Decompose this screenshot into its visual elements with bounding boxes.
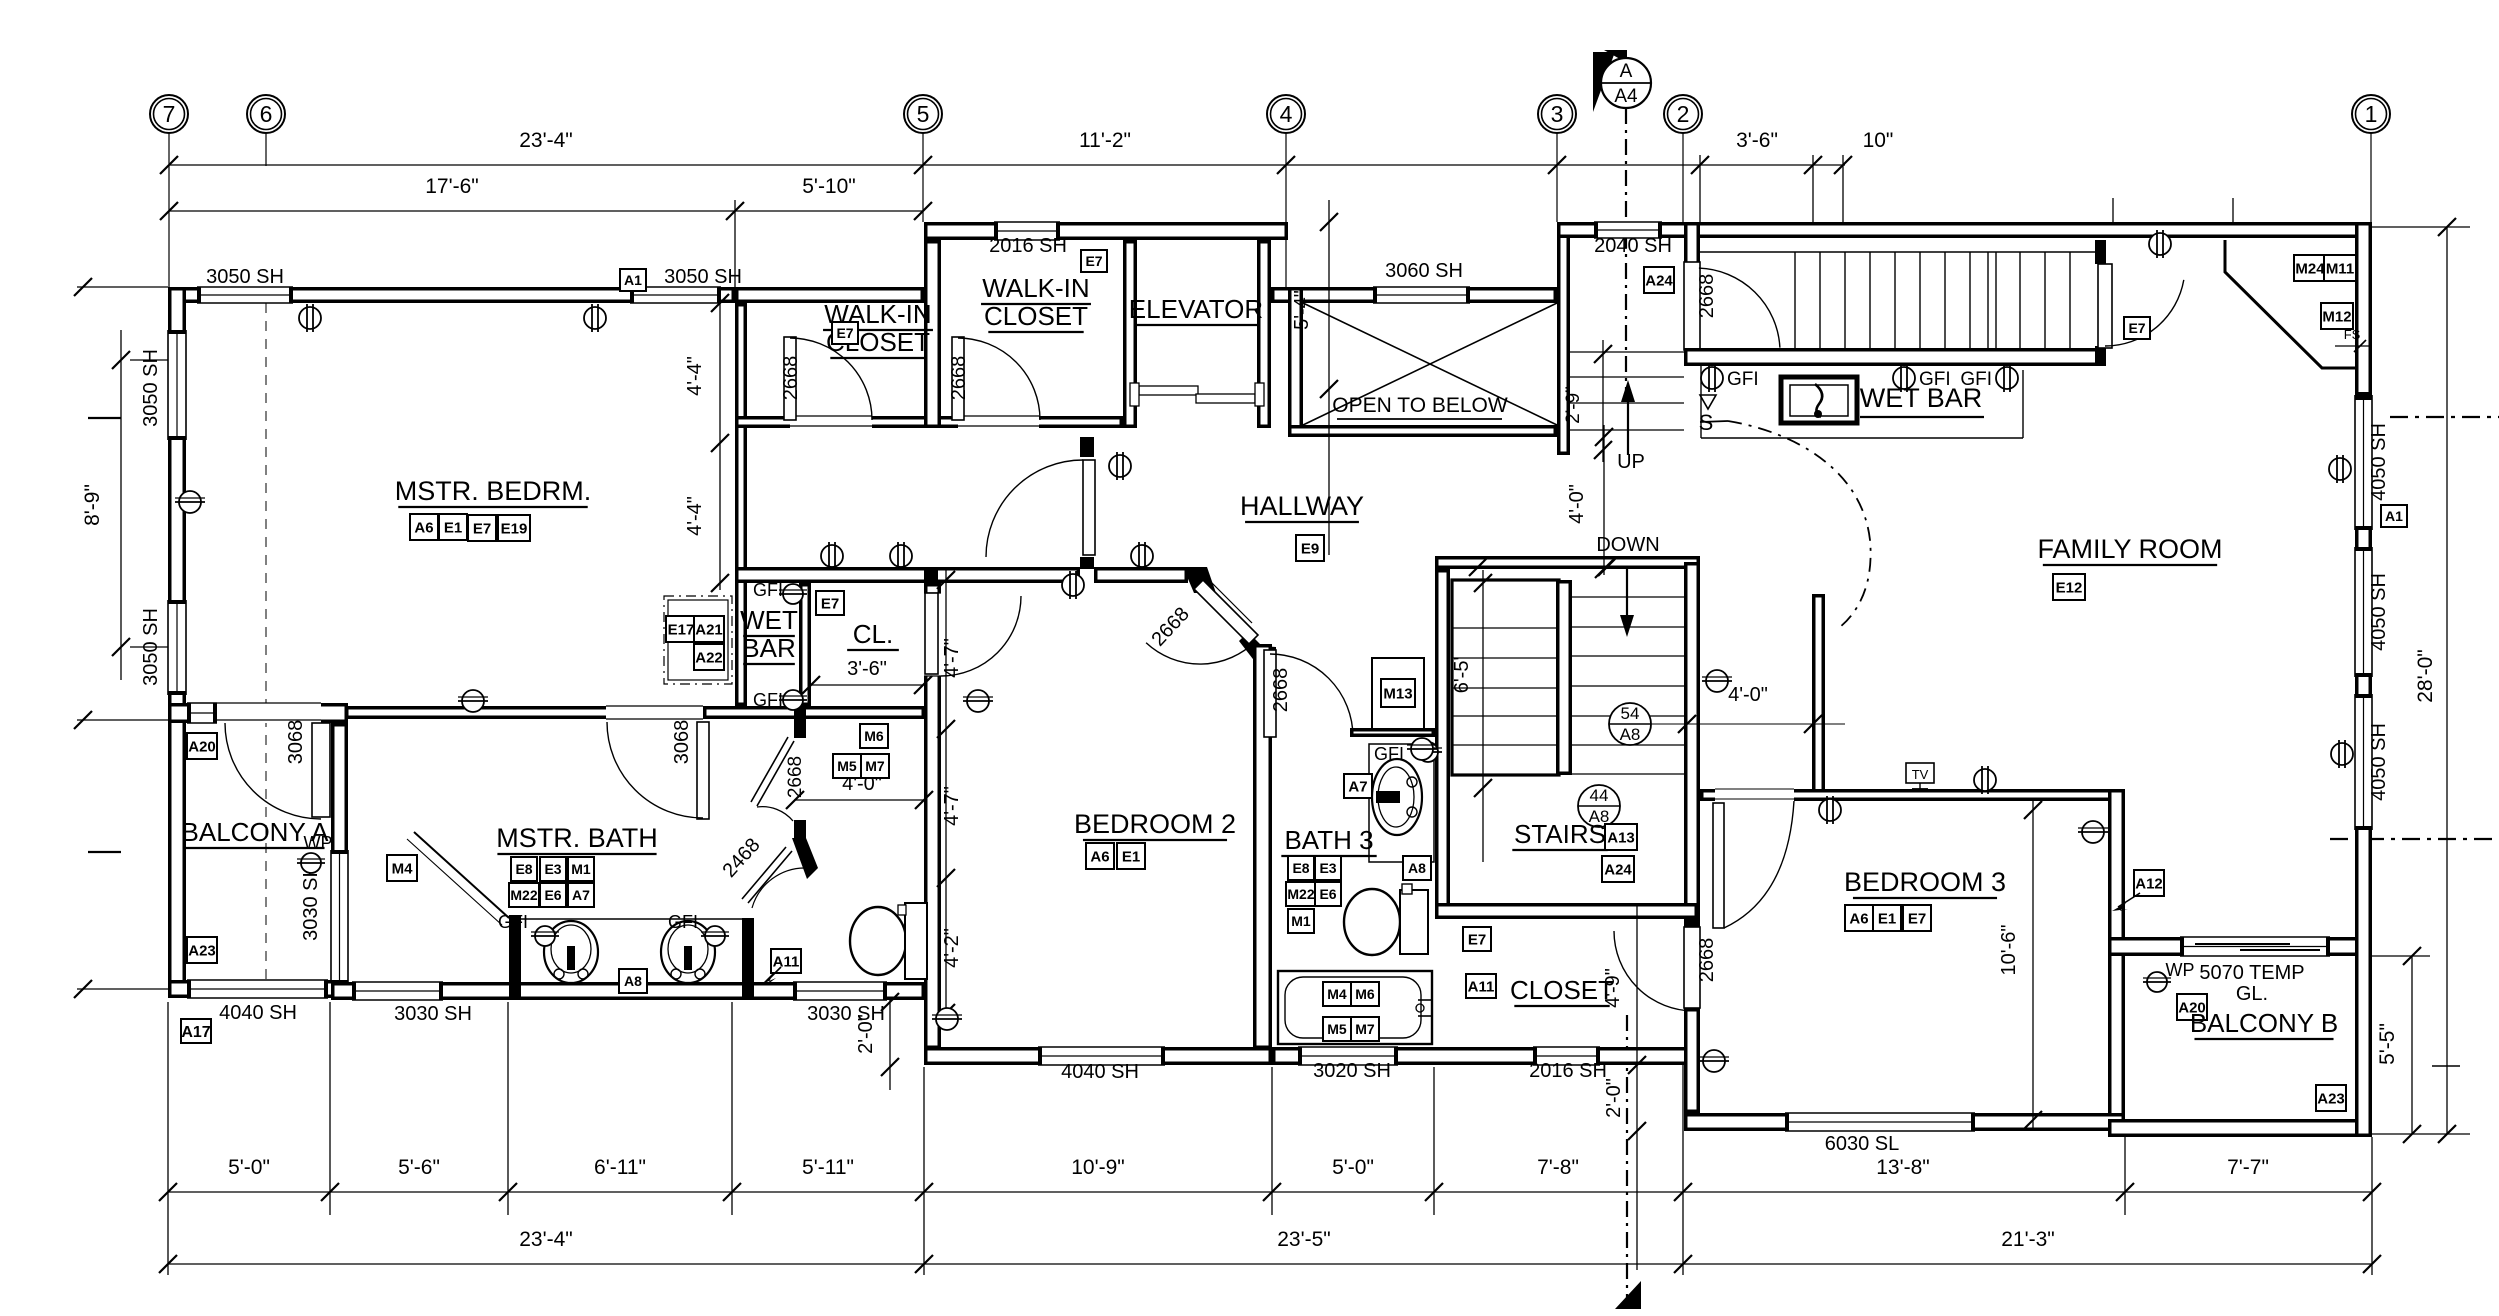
svg-text:10'-9": 10'-9" xyxy=(1071,1156,1125,1179)
svg-text:23'-4": 23'-4" xyxy=(519,129,573,152)
svg-text:DOWN: DOWN xyxy=(1596,534,1659,556)
svg-text:3050 SH: 3050 SH xyxy=(206,266,284,288)
svg-text:13'-8": 13'-8" xyxy=(1876,1156,1930,1179)
svg-text:28'-0": 28'-0" xyxy=(2414,649,2437,703)
svg-text:BALCONY B: BALCONY B xyxy=(2190,1008,2338,1038)
svg-text:6'-5': 6'-5' xyxy=(1451,657,1473,694)
svg-text:A11: A11 xyxy=(773,953,800,970)
svg-text:M6: M6 xyxy=(1355,986,1375,1002)
svg-text:5: 5 xyxy=(917,101,930,127)
svg-text:S: S xyxy=(1699,410,1714,435)
svg-text:A7: A7 xyxy=(572,887,590,903)
svg-text:BEDROOM 3: BEDROOM 3 xyxy=(1844,867,2006,897)
svg-text:A8: A8 xyxy=(1620,725,1641,744)
svg-text:A12: A12 xyxy=(2135,875,2163,892)
svg-text:UP: UP xyxy=(1617,451,1645,473)
svg-text:5'-0": 5'-0" xyxy=(1332,1156,1374,1179)
svg-text:5'-5": 5'-5" xyxy=(2376,1023,2399,1065)
svg-text:E7: E7 xyxy=(473,520,491,537)
svg-text:GFI: GFI xyxy=(753,580,783,600)
svg-text:6'-11": 6'-11" xyxy=(594,1156,646,1179)
svg-text:E1: E1 xyxy=(444,519,462,536)
svg-text:2668: 2668 xyxy=(948,356,970,401)
svg-text:2668: 2668 xyxy=(1696,938,1718,983)
svg-text:CLOSET: CLOSET xyxy=(984,301,1088,331)
svg-text:44: 44 xyxy=(1590,786,1609,805)
svg-text:GFI: GFI xyxy=(1960,369,1992,390)
svg-text:M7: M7 xyxy=(865,758,885,774)
svg-text:2'-0": 2'-0" xyxy=(855,1014,877,1054)
svg-text:4'-2": 4'-2" xyxy=(941,928,963,968)
svg-text:4'-0": 4'-0" xyxy=(1566,484,1588,524)
svg-text:M5: M5 xyxy=(1327,1021,1347,1037)
svg-text:MSTR. BATH: MSTR. BATH xyxy=(496,823,658,853)
svg-text:OPEN TO BELOW: OPEN TO BELOW xyxy=(1332,394,1508,417)
svg-text:M5: M5 xyxy=(837,758,857,774)
svg-text:3050 SH: 3050 SH xyxy=(140,608,162,686)
svg-text:3030 SH: 3030 SH xyxy=(300,863,322,941)
svg-text:A8: A8 xyxy=(1408,860,1426,876)
svg-text:5'-11": 5'-11" xyxy=(802,1156,854,1179)
svg-text:E9: E9 xyxy=(1301,540,1319,557)
svg-text:M12: M12 xyxy=(2322,308,2351,325)
svg-text:M1: M1 xyxy=(571,861,591,877)
svg-text:GFI: GFI xyxy=(668,912,698,932)
svg-text:A20: A20 xyxy=(188,738,216,755)
svg-text:17'-6": 17'-6" xyxy=(425,175,479,198)
svg-text:A4: A4 xyxy=(1614,86,1638,107)
svg-text:A13: A13 xyxy=(1607,829,1635,846)
svg-text:A24: A24 xyxy=(1604,861,1632,878)
svg-text:E1: E1 xyxy=(1878,910,1896,927)
svg-text:A22: A22 xyxy=(695,649,723,666)
svg-text:FAMILY ROOM: FAMILY ROOM xyxy=(2037,534,2222,564)
svg-text:5'-4": 5'-4" xyxy=(1291,290,1313,330)
svg-text:GFI: GFI xyxy=(498,912,528,932)
svg-text:E3: E3 xyxy=(1319,860,1336,876)
svg-text:3020 SH: 3020 SH xyxy=(1313,1060,1391,1082)
svg-text:GFI: GFI xyxy=(753,690,783,710)
svg-text:4'-7": 4'-7" xyxy=(941,786,963,826)
svg-text:WET: WET xyxy=(740,605,798,635)
svg-text:7'-8": 7'-8" xyxy=(1537,1156,1579,1179)
svg-text:MSTR. BEDRM.: MSTR. BEDRM. xyxy=(395,476,592,506)
svg-text:E6: E6 xyxy=(544,887,561,903)
svg-text:3060 SH: 3060 SH xyxy=(1385,260,1463,282)
svg-text:8'-9": 8'-9" xyxy=(81,484,104,526)
svg-text:A1: A1 xyxy=(624,272,642,288)
svg-text:GFI: GFI xyxy=(1919,369,1951,390)
svg-text:HALLWAY: HALLWAY xyxy=(1240,491,1364,521)
svg-text:E12: E12 xyxy=(2056,579,2083,596)
svg-text:E7: E7 xyxy=(1908,910,1926,927)
svg-text:FS: FS xyxy=(2344,327,2361,342)
svg-text:M7: M7 xyxy=(1355,1021,1375,1037)
svg-text:3'-6": 3'-6" xyxy=(847,658,887,680)
svg-text:M1: M1 xyxy=(1291,913,1311,929)
svg-text:54: 54 xyxy=(1621,704,1640,723)
svg-text:BEDROOM 2: BEDROOM 2 xyxy=(1074,809,1236,839)
svg-text:A: A xyxy=(1620,61,1633,82)
svg-text:4'-4": 4'-4" xyxy=(684,496,706,536)
svg-text:3050 SH: 3050 SH xyxy=(664,266,742,288)
svg-text:E3: E3 xyxy=(544,861,561,877)
svg-text:E8: E8 xyxy=(515,861,532,877)
svg-text:10'-6": 10'-6" xyxy=(1998,925,2020,976)
svg-text:3: 3 xyxy=(1551,101,1564,127)
svg-text:A24: A24 xyxy=(1645,272,1673,289)
svg-text:CL.: CL. xyxy=(853,619,893,649)
svg-text:E19: E19 xyxy=(501,520,528,537)
svg-text:A6: A6 xyxy=(1090,848,1109,865)
svg-text:7'-7": 7'-7" xyxy=(2227,1156,2269,1179)
svg-text:5'-0": 5'-0" xyxy=(228,1156,270,1179)
svg-text:7: 7 xyxy=(163,101,176,127)
svg-text:GFI: GFI xyxy=(1374,744,1404,764)
svg-text:BATH 3: BATH 3 xyxy=(1284,825,1373,855)
svg-text:A23: A23 xyxy=(2317,1090,2345,1107)
svg-text:E7: E7 xyxy=(2128,320,2145,336)
svg-text:TV: TV xyxy=(1912,767,1929,782)
svg-text:ELEVATOR: ELEVATOR xyxy=(1129,294,1263,324)
svg-text:5070 TEMP: 5070 TEMP xyxy=(2199,962,2304,984)
svg-text:6: 6 xyxy=(260,101,273,127)
svg-text:A6: A6 xyxy=(414,519,433,536)
svg-text:2668: 2668 xyxy=(1270,668,1292,713)
svg-text:E8: E8 xyxy=(1292,860,1309,876)
svg-text:3030 SH: 3030 SH xyxy=(394,1003,472,1025)
svg-text:A1: A1 xyxy=(2385,508,2403,524)
svg-text:E6: E6 xyxy=(1319,886,1336,902)
svg-text:WP: WP xyxy=(304,833,333,853)
svg-text:23'-5": 23'-5" xyxy=(1277,1228,1331,1251)
svg-text:2668: 2668 xyxy=(780,356,802,401)
svg-text:2'-0": 2'-0" xyxy=(1603,1078,1625,1118)
svg-text:4: 4 xyxy=(1280,101,1293,127)
svg-text:A17: A17 xyxy=(181,1024,210,1041)
svg-text:4040 SH: 4040 SH xyxy=(1061,1061,1139,1083)
svg-text:2: 2 xyxy=(1677,101,1690,127)
svg-text:M24: M24 xyxy=(2295,260,2325,277)
svg-text:E7: E7 xyxy=(1468,931,1486,948)
svg-text:4'-7": 4'-7" xyxy=(941,638,963,678)
svg-text:A6: A6 xyxy=(1849,910,1868,927)
svg-text:E7: E7 xyxy=(1085,253,1102,269)
svg-text:11'-2": 11'-2" xyxy=(1079,129,1131,152)
svg-text:M11: M11 xyxy=(2326,260,2354,277)
svg-text:2040 SH: 2040 SH xyxy=(1594,235,1672,257)
svg-text:4050 SH: 4050 SH xyxy=(2368,423,2390,501)
svg-text:WALK-IN: WALK-IN xyxy=(982,273,1089,303)
svg-text:A8: A8 xyxy=(624,973,642,989)
svg-text:5'-6": 5'-6" xyxy=(398,1156,440,1179)
svg-text:M13: M13 xyxy=(1383,685,1412,702)
svg-text:2016 SH: 2016 SH xyxy=(989,235,1067,257)
svg-text:23'-4": 23'-4" xyxy=(519,1228,573,1251)
svg-text:BAR: BAR xyxy=(742,633,795,663)
svg-text:4050 SH: 4050 SH xyxy=(2368,723,2390,801)
svg-text:GL.: GL. xyxy=(2236,983,2268,1005)
svg-text:2016 SH: 2016 SH xyxy=(1529,1060,1607,1082)
svg-text:M4: M4 xyxy=(1327,986,1347,1002)
svg-text:21'-3": 21'-3" xyxy=(2001,1228,2055,1251)
svg-text:5'-10": 5'-10" xyxy=(802,175,856,198)
svg-text:3068: 3068 xyxy=(671,720,693,765)
svg-text:4'-4": 4'-4" xyxy=(684,356,706,396)
svg-text:6030 SL: 6030 SL xyxy=(1825,1133,1900,1155)
svg-text:GFI: GFI xyxy=(1727,369,1759,390)
svg-text:3050 SH: 3050 SH xyxy=(140,349,162,427)
svg-text:3'-6": 3'-6" xyxy=(1736,129,1778,152)
svg-text:3068: 3068 xyxy=(285,720,307,765)
svg-text:E7: E7 xyxy=(821,595,839,612)
svg-text:4050 SH: 4050 SH xyxy=(2368,573,2390,651)
svg-text:M22: M22 xyxy=(1287,886,1314,902)
svg-text:CLOSET: CLOSET xyxy=(1510,975,1614,1005)
svg-text:A21: A21 xyxy=(695,621,723,638)
svg-text:A7: A7 xyxy=(1348,778,1367,795)
svg-text:2668: 2668 xyxy=(1696,274,1718,319)
svg-text:A23: A23 xyxy=(188,942,216,959)
svg-text:A11: A11 xyxy=(1468,978,1495,995)
svg-text:STAIRS: STAIRS xyxy=(1514,819,1606,849)
svg-text:4'-0": 4'-0" xyxy=(1728,684,1768,706)
svg-text:E17: E17 xyxy=(668,621,695,638)
svg-text:M4: M4 xyxy=(392,860,413,877)
svg-text:M22: M22 xyxy=(510,887,537,903)
svg-text:E1: E1 xyxy=(1122,848,1140,865)
svg-text:1: 1 xyxy=(2365,101,2378,127)
svg-text:2'-9": 2'-9" xyxy=(1563,386,1584,424)
svg-text:4040 SH: 4040 SH xyxy=(219,1002,297,1024)
svg-text:M6: M6 xyxy=(864,728,884,744)
svg-text:E7: E7 xyxy=(836,325,853,341)
svg-text:4'-9": 4'-9" xyxy=(1602,968,1624,1008)
svg-text:WP: WP xyxy=(2166,960,2195,980)
svg-text:10": 10" xyxy=(1863,129,1894,152)
